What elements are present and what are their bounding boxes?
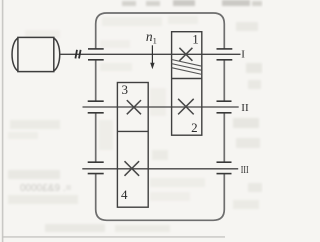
bearing right shaft II <box>217 101 232 113</box>
gear 3 hub cross <box>127 100 141 114</box>
svg-text:2: 2 <box>191 120 198 135</box>
gear 4 hub cross <box>125 161 140 176</box>
coupling <box>75 50 80 59</box>
svg-text:III: III <box>241 164 249 176</box>
mesh line gears 3-4 <box>117 130 148 132</box>
gear block 1-2 outline <box>172 32 202 136</box>
bearing left shaft III <box>88 162 104 173</box>
bearing right shaft III <box>217 162 232 173</box>
svg-text:4: 4 <box>121 187 128 202</box>
shaft I <box>60 53 240 55</box>
gear 1 helical hatch <box>172 60 202 75</box>
page edge line left <box>2 0 4 242</box>
svg-text:0000£&9 .=: 0000£&9 .= <box>20 183 72 194</box>
gear 1 hub cross <box>179 48 192 61</box>
page edge line bottom <box>2 236 225 238</box>
bleed-through text blobs (decorative) <box>8 0 262 232</box>
bearing left shaft II <box>88 101 104 113</box>
mesh line gears 1-2 <box>172 78 202 80</box>
gearbox housing (rounded rect with gaps at bearings) <box>96 13 225 220</box>
svg-text:3: 3 <box>122 82 129 97</box>
bearing right shaft I <box>217 49 233 60</box>
svg-text:II: II <box>241 102 249 114</box>
shaft III <box>82 168 238 170</box>
input direction arrow <box>151 45 153 63</box>
gear block 3-4 outline <box>117 83 148 208</box>
motor M <box>12 37 60 71</box>
svg-text:1: 1 <box>192 32 199 47</box>
svg-text:I: I <box>241 48 245 60</box>
bearing left shaft I <box>88 49 104 60</box>
shaft II <box>83 106 239 108</box>
gear 2 hub cross <box>178 99 194 115</box>
